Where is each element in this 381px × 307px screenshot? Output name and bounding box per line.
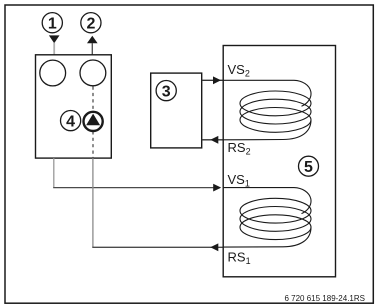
svg-text:1: 1 [48,15,57,32]
svg-text:VS1: VS1 [228,172,250,189]
wire VS1 vertical from unit [53,158,55,188]
wire VS1 horizontal to tank [53,187,220,189]
callout circle 3 [156,81,176,101]
wire stem port 2 [91,43,93,55]
arrow RS2 out of tank [210,136,218,144]
arrow VS1 into tank [213,184,221,192]
pump P1 [84,112,103,131]
wire VS2 [202,79,223,81]
coil HX2 upper heat exchanger [223,80,312,140]
arrow down at port 1 [49,35,60,43]
control unit box 3 [151,73,202,148]
unit port circle left [40,60,66,86]
svg-text:5: 5 [304,159,313,176]
wire RS2 [202,139,223,141]
node 2 callout circle [81,13,101,33]
heat source unit box [36,55,112,158]
coil HX1 lower heat exchanger [223,188,312,248]
node 1 callout circle [42,13,62,33]
svg-text:4: 4 [66,113,75,130]
wire RS1 horizontal from tank [92,246,222,248]
callout circle 5 [299,156,319,176]
dashed line through pump [92,87,94,159]
svg-text:6 720 615 189-24.1RS: 6 720 615 189-24.1RS [284,294,365,303]
svg-text:VS2: VS2 [228,62,250,79]
storage tank box 5 [223,46,335,277]
callout circle 4 [61,111,81,131]
wire RS1 vertical from unit pump [92,158,94,247]
arrow up at port 2 [87,36,98,44]
unit port circle right [80,60,106,86]
svg-text:3: 3 [162,83,171,100]
svg-text:RS2: RS2 [228,140,251,157]
arrow RS1 out of tank [210,243,218,251]
arrow VS2 into tank [213,76,221,84]
svg-text:2: 2 [86,15,95,32]
svg-text:RS1: RS1 [228,249,251,266]
wire stem port 1 [53,43,55,55]
